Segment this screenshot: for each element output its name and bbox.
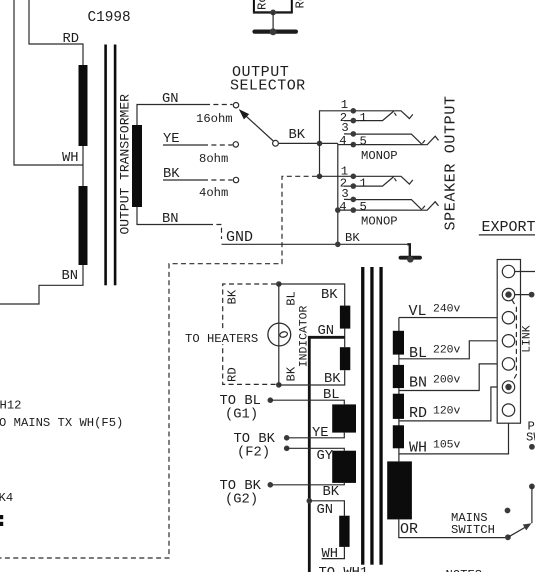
wire secondary top stub	[137, 105, 205, 126]
jack J1 speaker output	[338, 98, 439, 163]
svg-text:RD: RD	[409, 405, 427, 422]
wire secondary bottom stub BN	[137, 207, 208, 225]
wire WH tap to link pin7	[399, 416, 509, 454]
svg-text:GN: GN	[162, 92, 179, 107]
svg-text:105v: 105v	[433, 440, 461, 452]
node YE terminal	[284, 435, 290, 441]
selector pivot	[273, 140, 279, 146]
pin 1 tip rail	[353, 111, 413, 119]
svg-text:TO HEATERS: TO HEATERS	[185, 332, 258, 346]
wire BL tap	[270, 400, 344, 404]
wire between sec1-sec2	[344, 329, 346, 348]
winding sec 4 (GY-BK heavy)	[332, 451, 356, 483]
link pin 2 (bridged)	[502, 288, 514, 300]
pin junction dots	[351, 108, 357, 114]
svg-text:RD: RD	[63, 32, 80, 47]
wire left vertical to WH tap	[14, 0, 83, 165]
svg-text:1: 1	[341, 98, 348, 112]
pin 3 sleeve rail	[344, 134, 422, 145]
wire BN dashed jog to GND	[208, 225, 222, 240]
selector terminal 16ohm	[233, 103, 238, 108]
svg-text:1: 1	[360, 111, 367, 125]
winding pri 1 (VL-BL)	[393, 331, 404, 355]
selector arm with arrowhead	[246, 116, 273, 141]
wire primary winding spine	[398, 318, 400, 462]
wire BN tap to link pin5	[399, 364, 502, 391]
node terminal right lower with wire	[529, 484, 535, 490]
wire RD feed from top	[29, 0, 83, 65]
winding sec 3 (BL-YE heavy)	[332, 404, 356, 432]
core line 1	[104, 45, 107, 286]
wire ground bus	[222, 243, 408, 245]
pin 2 contact	[344, 111, 394, 121]
svg-text:OR: OR	[400, 521, 418, 538]
svg-text:SPEAKER OUTPUT: SPEAKER OUTPUT	[443, 95, 460, 230]
svg-text:1: 1	[360, 176, 367, 190]
label RD rotated (heater bottom)	[224, 366, 240, 383]
link pin 1	[502, 265, 514, 277]
wire pin4 to common	[338, 144, 354, 146]
wire dashed from lower junction going left/down (export loop)	[0, 176, 317, 558]
winding sec 2 (GN-BK)	[340, 347, 350, 370]
svg-text:240v: 240v	[433, 304, 461, 316]
svg-text:MONOP: MONOP	[361, 215, 398, 229]
wire GY tap	[287, 448, 345, 450]
pin 3 sleeve rail	[344, 199, 422, 210]
svg-text:RD: RD	[226, 367, 240, 382]
pin 1 tip rail	[353, 176, 413, 184]
wire YE stub	[163, 144, 203, 146]
svg-text:5: 5	[360, 134, 367, 148]
mains core line 1	[361, 267, 364, 565]
pin 3 contact tick	[422, 206, 425, 209]
svg-text:(F2): (F2)	[237, 445, 270, 461]
wire stub to chassis ground	[407, 244, 410, 256]
svg-text:BK: BK	[323, 485, 340, 500]
svg-text:4: 4	[339, 200, 346, 214]
svg-text:TO WH1: TO WH1	[319, 566, 369, 572]
node GN rail junction	[307, 498, 313, 504]
svg-text:GN: GN	[317, 503, 334, 518]
wire BK stub	[163, 179, 203, 181]
mains switch lever with arrowhead	[505, 534, 511, 540]
pin 2 contact tick	[394, 178, 396, 181]
wire YE dashed	[203, 144, 233, 146]
winding pri main (OR heavy)	[387, 461, 412, 519]
wire RD tap to link pin6	[399, 387, 502, 421]
node terminal right upper	[529, 444, 535, 450]
svg-text:SELECTOR: SELECTOR	[230, 78, 306, 95]
svg-text:K4: K4	[0, 491, 13, 505]
wire junction up to jack1 pin1	[320, 111, 352, 144]
node ground junction	[335, 242, 341, 248]
svg-text:GND: GND	[226, 229, 253, 246]
pin 2 contact	[344, 177, 394, 187]
svg-text:120v: 120v	[433, 406, 461, 418]
label TO HEATERS	[184, 331, 259, 346]
lamp LP1 indicator	[268, 323, 291, 346]
svg-text:Ro: Ro	[294, 0, 308, 9]
wire common down to ground row	[337, 143, 339, 244]
svg-text:H12: H12	[0, 399, 21, 413]
node GY terminal	[284, 446, 290, 452]
wire VL tap to link pin3	[399, 317, 502, 319]
wire primary bottom exit	[0, 265, 83, 304]
svg-text:(G1): (G1)	[225, 407, 258, 423]
svg-text:SWITCH: SWITCH	[451, 523, 495, 537]
wire GN thick tap to bottom rail	[309, 337, 344, 572]
resistor right lead (cut at top)	[291, 0, 293, 13]
svg-text:(G2): (G2)	[225, 492, 258, 508]
svg-text:4ohm: 4ohm	[199, 186, 228, 200]
wire joining resistor bottoms	[253, 11, 293, 13]
selector terminal 8ohm	[233, 142, 238, 147]
link pin 4	[502, 335, 514, 347]
mains switch open contact node	[505, 508, 511, 514]
winding pri 3 (BN-RD)	[393, 394, 404, 419]
winding sec 1 (BK-GN)	[340, 306, 350, 329]
wire link pin2 out with end node	[515, 294, 532, 296]
winding primary lower bar	[79, 186, 88, 265]
svg-text:LINK: LINK	[522, 325, 534, 353]
svg-text:BN: BN	[409, 375, 427, 392]
svg-text:BL: BL	[285, 291, 299, 306]
svg-text:BK: BK	[324, 372, 341, 387]
wire WH tap	[322, 547, 345, 559]
wire BK tap	[270, 483, 344, 485]
jack J2 speaker output	[335, 165, 439, 229]
svg-text:200v: 200v	[433, 375, 461, 387]
chassis ground symbol top	[255, 30, 296, 34]
link terminal block	[497, 260, 520, 424]
wire GN dashed to selector	[205, 104, 233, 106]
link pin 6 (bridged)	[502, 381, 514, 393]
wire BL tap to link pin4	[399, 341, 502, 359]
svg-text:220v: 220v	[433, 345, 461, 357]
svg-text:WH: WH	[62, 151, 79, 166]
wire pivot to junction	[279, 142, 338, 144]
pin 4 rail with spring	[353, 136, 438, 145]
wire BK dashed	[203, 179, 233, 181]
svg-text:4: 4	[339, 134, 346, 148]
node BK terminal	[268, 482, 274, 488]
link pin 3	[502, 312, 514, 324]
link pin 7	[502, 404, 514, 416]
svg-text:BK: BK	[345, 231, 360, 245]
wire BK top tap	[279, 284, 345, 306]
svg-text:Ro: Ro	[256, 0, 270, 10]
wire primary mid	[82, 146, 84, 186]
svg-text:C1998: C1998	[88, 10, 131, 26]
pin 3 contact tick	[422, 140, 425, 143]
selector terminal 4ohm	[233, 177, 238, 182]
core line 2	[114, 45, 117, 286]
mains core line 3	[379, 267, 382, 565]
node heater bottom	[276, 382, 282, 388]
svg-text:YE: YE	[312, 426, 329, 441]
link pin 5	[502, 358, 514, 370]
wire OR bottom to switch	[399, 519, 505, 537]
svg-text:EXPORT: EXPORT	[482, 219, 535, 236]
svg-text:BN: BN	[62, 269, 79, 284]
node heater top	[276, 281, 282, 287]
label fragment at left edge	[0, 515, 3, 519]
wire junction down to jack2 pin1	[319, 143, 321, 176]
svg-text:5: 5	[360, 200, 367, 214]
winding secondary bar	[132, 125, 142, 207]
pin 4 rail with spring	[338, 202, 439, 211]
winding sec 5 (GN-WH)	[339, 516, 349, 547]
svg-text:BK: BK	[285, 366, 299, 381]
chassis ground symbol right	[401, 256, 421, 260]
svg-text:8ohm: 8ohm	[199, 152, 228, 166]
node TO BL terminal	[268, 397, 274, 403]
node lower junction	[317, 174, 323, 180]
svg-text:16ohm: 16ohm	[196, 112, 233, 126]
pin 2 contact tick	[394, 113, 396, 116]
svg-text:BK: BK	[289, 128, 306, 143]
svg-text:3: 3	[341, 121, 348, 135]
winding pri 4 (RD-WH)	[393, 425, 404, 448]
node junction below resistors	[270, 10, 276, 16]
svg-text:SW: SW	[526, 431, 535, 445]
winding pri 2 (BL-BN)	[393, 365, 404, 388]
svg-text:MONOP: MONOP	[361, 149, 398, 163]
heater supply dashed box	[223, 284, 276, 384]
wire lamp through	[278, 284, 280, 385]
svg-text:BK: BK	[321, 288, 338, 303]
node common at pin4	[335, 207, 341, 213]
svg-text:BN: BN	[162, 212, 179, 227]
svg-text:OUTPUT TRANSFORMER: OUTPUT TRANSFORMER	[118, 94, 133, 235]
pin junction dots	[351, 174, 357, 180]
wire to chassis ground	[272, 12, 274, 30]
wire YE tap	[287, 433, 345, 438]
mains core line 2	[370, 267, 373, 565]
svg-text:WH: WH	[322, 547, 339, 562]
wire dashed link strap pin2-pin6	[512, 300, 517, 382]
svg-text:BL: BL	[409, 345, 427, 362]
node BK junction	[317, 141, 323, 147]
svg-text:GY: GY	[317, 449, 334, 464]
svg-text:BK: BK	[226, 289, 240, 304]
label BK rotated (heater top)	[224, 287, 240, 305]
wire lower junction to jack2 pin1	[320, 175, 352, 177]
winding primary upper bar	[79, 65, 88, 146]
wire link pin1 out	[515, 271, 535, 273]
svg-text:O MAINS TX WH(F5): O MAINS TX WH(F5)	[0, 416, 123, 430]
svg-text:NOTES: NOTES	[446, 568, 483, 572]
resistor left lead (cut at top)	[253, 0, 255, 13]
wire GN tap lower	[309, 501, 344, 516]
wire BK bottom tap to heater box	[279, 370, 345, 385]
